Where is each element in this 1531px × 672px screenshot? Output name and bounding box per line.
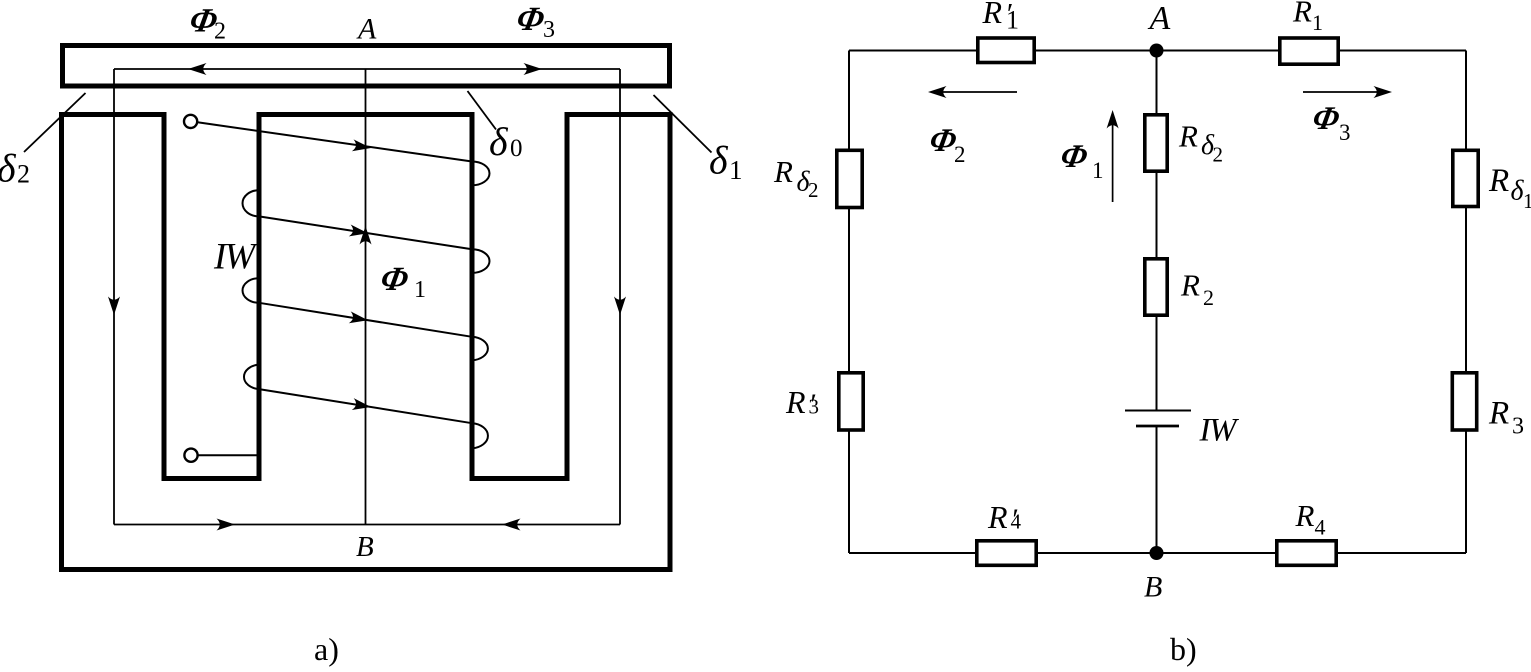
svg-text:δ: δ bbox=[709, 138, 729, 183]
svg-text:3: 3 bbox=[1339, 120, 1351, 145]
coil IW around center leg bbox=[184, 115, 490, 462]
svg-text:R: R bbox=[1178, 119, 1198, 154]
coil right arc 1 bbox=[472, 162, 490, 186]
svg-text:R: R bbox=[1292, 0, 1312, 29]
svg-text:2: 2 bbox=[214, 19, 226, 45]
coil turn 4 front bbox=[259, 389, 472, 423]
label Phi2 bbox=[186, 2, 226, 45]
svg-text:1: 1 bbox=[1523, 189, 1531, 213]
arrow coil turn 1 bbox=[352, 139, 372, 154]
svg-text:2: 2 bbox=[808, 178, 819, 202]
coil turn 1 front bbox=[198, 122, 473, 161]
armature top bar bbox=[63, 46, 670, 87]
svg-text:R: R bbox=[1295, 498, 1315, 533]
wire bottom bbox=[849, 552, 1466, 554]
svg-text:1: 1 bbox=[1006, 6, 1019, 35]
svg-text:R: R bbox=[1488, 396, 1509, 432]
mmf source IW bbox=[1125, 411, 1191, 427]
wire bottom flux line bbox=[114, 524, 620, 526]
wire top left bbox=[849, 50, 1157, 52]
wire center branch upper bbox=[1156, 51, 1158, 411]
gap pointer delta0 bbox=[468, 91, 497, 130]
resistor Rd2 (left branch) bbox=[837, 150, 862, 207]
label Phi3 bbox=[513, 0, 555, 43]
resistor R1 bbox=[1280, 38, 1338, 64]
coil turn 2 front bbox=[259, 216, 472, 249]
air-gap pointers bbox=[24, 91, 712, 153]
arrow Phi3 shaft bbox=[1303, 91, 1386, 93]
wire left side bbox=[848, 51, 850, 554]
wire top right bbox=[1157, 50, 1467, 52]
svg-text:3: 3 bbox=[543, 17, 555, 43]
svg-text:1: 1 bbox=[729, 155, 743, 185]
label Phi1 bbox=[377, 260, 426, 303]
coil left arc 3 bbox=[244, 365, 259, 390]
svg-text:R: R bbox=[773, 154, 793, 189]
svg-text:B: B bbox=[1144, 571, 1162, 604]
arrow right flux (down) bbox=[614, 297, 626, 316]
arrow top-right flux (right) bbox=[524, 63, 543, 75]
svg-text:4: 4 bbox=[1011, 510, 1022, 534]
gap pointer delta1 bbox=[654, 95, 712, 153]
terminal bottom lead bbox=[198, 454, 259, 456]
terminal bottom circle bbox=[184, 449, 197, 462]
arrow Phi2 shaft bbox=[934, 91, 1017, 93]
arrow left flux (down) bbox=[108, 297, 120, 316]
flux arrows part b bbox=[934, 92, 1386, 202]
wire center flux line bbox=[365, 69, 367, 525]
coil left arc 1 bbox=[243, 190, 259, 216]
coil right arc 3 bbox=[472, 337, 488, 361]
coil right arc 2 bbox=[472, 249, 490, 273]
svg-text:R: R bbox=[1180, 268, 1200, 303]
arrow bottom-right flux (left) bbox=[502, 519, 521, 531]
arrow coil turn 4 bbox=[352, 398, 372, 413]
svg-text:2: 2 bbox=[17, 160, 30, 189]
arrow Phi2 head bbox=[928, 86, 947, 98]
svg-text:δ: δ bbox=[0, 146, 17, 191]
svg-text:IW: IW bbox=[213, 237, 258, 278]
wire center branch lower bbox=[1156, 426, 1158, 553]
node A dot bbox=[1150, 44, 1164, 58]
svg-text:3: 3 bbox=[1512, 414, 1524, 440]
wire left flux line bbox=[113, 69, 115, 525]
svg-text:2: 2 bbox=[1213, 143, 1224, 167]
svg-text:b): b) bbox=[1170, 631, 1197, 667]
wire right flux line bbox=[619, 69, 621, 525]
node B dot bbox=[1150, 546, 1164, 560]
svg-text:2: 2 bbox=[1203, 285, 1214, 310]
svg-text:1: 1 bbox=[414, 277, 426, 303]
arrow Phi3 head bbox=[1374, 86, 1393, 98]
resistor R'4 bbox=[977, 541, 1036, 566]
svg-text:A: A bbox=[356, 13, 377, 46]
resistor R4 bbox=[1277, 541, 1336, 566]
svg-text:R: R bbox=[987, 499, 1008, 535]
gap pointer delta2 bbox=[24, 93, 86, 152]
svg-text:R: R bbox=[785, 384, 806, 420]
coil right arc 4 bbox=[472, 423, 488, 448]
svg-text:R: R bbox=[1488, 163, 1509, 199]
label Phi2 (b) bbox=[926, 122, 965, 167]
svg-text:4: 4 bbox=[1315, 515, 1326, 540]
arrow bottom-left flux (right) bbox=[217, 519, 236, 531]
arrow Phi1 head bbox=[1107, 110, 1119, 129]
coil left arc 2 bbox=[243, 278, 259, 303]
svg-text:2: 2 bbox=[954, 142, 966, 167]
resistor Rd2 (center branch) bbox=[1145, 115, 1167, 171]
coil turn 3 front bbox=[259, 303, 472, 337]
svg-text:A: A bbox=[1148, 0, 1171, 37]
arrow center flux (up) bbox=[360, 226, 372, 245]
E-core outline bbox=[62, 115, 671, 570]
wire top flux line bbox=[114, 68, 620, 70]
svg-text:B: B bbox=[356, 531, 374, 563]
source long plate bbox=[1125, 410, 1191, 412]
svg-text:R: R bbox=[982, 0, 1003, 30]
arrow top-left flux (left) bbox=[188, 63, 207, 75]
svg-text:0: 0 bbox=[510, 135, 523, 162]
flux loop bbox=[114, 69, 620, 525]
label Phi3 (b) bbox=[1309, 100, 1350, 145]
resistor R3 bbox=[1452, 373, 1476, 430]
source short plate bbox=[1136, 425, 1179, 428]
svg-text:δ: δ bbox=[489, 119, 509, 164]
svg-text:1: 1 bbox=[1312, 10, 1323, 35]
arrow Phi1 shaft bbox=[1112, 116, 1114, 202]
svg-text:a): a) bbox=[314, 631, 339, 667]
wire right side bbox=[1465, 51, 1467, 554]
arrow coil turn 2 bbox=[349, 225, 369, 240]
svg-text:1: 1 bbox=[1092, 158, 1104, 183]
arrow coil turn 3 bbox=[349, 311, 369, 326]
resistor Rd1 (right branch) bbox=[1453, 150, 1478, 206]
svg-text:3: 3 bbox=[809, 395, 820, 419]
resistor R2 bbox=[1145, 259, 1167, 315]
label Phi1 (b) bbox=[1057, 138, 1103, 183]
resistor R'3 bbox=[839, 373, 863, 430]
svg-text:IW: IW bbox=[1199, 413, 1239, 449]
terminal top circle bbox=[184, 115, 197, 128]
resistor R'1 bbox=[978, 38, 1034, 63]
